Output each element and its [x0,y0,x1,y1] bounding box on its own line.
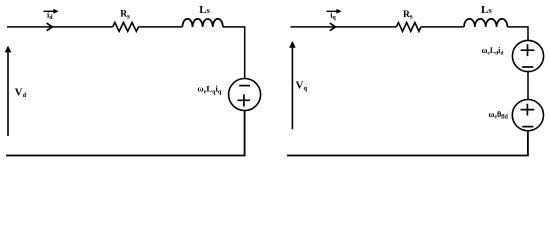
svg-text:Ls: Ls [481,4,492,16]
voltage source circle (left) [229,79,261,111]
current arrow i_q [327,10,338,12]
wire source bottom to bottom rail and bottom wire (left) [6,111,245,156]
wire between sources [527,72,529,100]
plus sign (source 1) [521,44,535,56]
minus sign (top of left source) [239,85,250,87]
wire source 2 bottom to bottom rail and bottom wire (right) [287,131,528,156]
wire inductor to top-right corner and down [223,27,245,79]
wire between resistor and inductor (right) [421,26,464,28]
chevron on wire (i_d direction) [47,23,53,31]
wire top-left segment [7,26,113,28]
chevron on wire (i_q direction) [330,23,336,31]
inductor Ls (right) [464,19,507,27]
wire between resistor and inductor [138,26,182,28]
wire inductor to top-right corner and down (right) [507,27,528,41]
voltage source 1 circle (right top) [512,40,543,71]
plus sign (bottom of left source) [238,94,251,106]
svg-text:Ls: Ls [199,4,210,16]
V_d arrow [7,51,9,137]
V_q arrow [291,46,293,130]
minus sign (source 1) [522,66,533,68]
voltage source 2 circle (right bottom) [512,100,543,131]
resistor Rs (left) [113,23,139,32]
minus sign (source 2) [522,126,533,128]
plus sign (source 2) [521,104,535,116]
resistor Rs (right) [396,23,421,32]
wire top-left segment (right circuit) [291,26,397,28]
inductor Ls (left) [182,19,222,27]
current arrow i_d [44,10,55,12]
